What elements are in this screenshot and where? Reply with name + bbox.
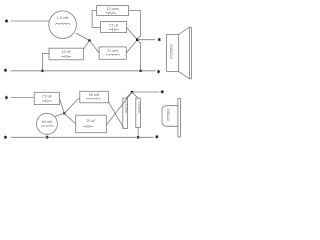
inductor L2 .27 mH bbox=[99, 47, 126, 59]
svg-text:1.0 mH: 1.0 mH bbox=[57, 16, 69, 20]
wire bbox=[83, 41, 89, 50]
wire bbox=[64, 98, 80, 114]
node J4 bbox=[131, 91, 134, 94]
wire bbox=[132, 92, 138, 98]
capacitor C1 7.5 uF bbox=[101, 22, 127, 33]
speaker woofer P17WJ bbox=[167, 27, 192, 79]
svg-text:7.5 uF: 7.5 uF bbox=[42, 94, 53, 98]
wire (ground rail, woofer) bbox=[11, 70, 156, 72]
wire bbox=[132, 91, 160, 93]
wire bbox=[11, 97, 34, 99]
speaker tweeter 27TDFC bbox=[162, 99, 181, 138]
terminal - (woofer) bbox=[157, 70, 160, 74]
input terminal + (tweeter section) bbox=[5, 96, 8, 100]
wire bbox=[60, 99, 65, 114]
svg-text:20 uF: 20 uF bbox=[86, 119, 96, 123]
svg-text:40 mH: 40 mH bbox=[42, 120, 53, 124]
node J1 bbox=[88, 39, 91, 42]
wire bbox=[106, 92, 132, 125]
wire (ground rail, tweeter) bbox=[11, 136, 154, 138]
resistor R1 12 ohm bbox=[97, 6, 129, 16]
svg-text:15 ohm: 15 ohm bbox=[124, 102, 128, 113]
capacitor C2 10 uF bbox=[49, 48, 83, 60]
input terminal - (woofer section) bbox=[4, 69, 7, 73]
input terminal - (tweeter section) bbox=[4, 136, 7, 140]
wire bbox=[137, 127, 139, 137]
wire bbox=[126, 92, 132, 98]
wire hop bbox=[138, 37, 141, 43]
svg-text:7.5 uF: 7.5 uF bbox=[108, 23, 119, 27]
wire bbox=[76, 33, 90, 40]
svg-text:12 ohm: 12 ohm bbox=[107, 7, 119, 11]
terminal + (tweeter) bbox=[161, 90, 164, 94]
capacitor C3 7.5 uF bbox=[34, 92, 59, 104]
inductor L3 .40 mH bbox=[36, 113, 57, 134]
wire bbox=[127, 27, 138, 39]
wire bbox=[92, 11, 101, 28]
wire bbox=[129, 11, 141, 37]
wire bbox=[140, 42, 142, 70]
wire bbox=[64, 113, 75, 124]
wire bbox=[42, 53, 49, 70]
node bbox=[46, 136, 49, 139]
wire bbox=[126, 40, 137, 53]
terminal + (woofer) bbox=[158, 38, 161, 42]
wire bbox=[11, 20, 49, 22]
node bbox=[41, 70, 44, 73]
node J3 bbox=[63, 112, 66, 115]
inductor L1 1.0 mH bbox=[49, 11, 77, 39]
svg-text:35 mH: 35 mH bbox=[89, 93, 100, 97]
node bbox=[137, 136, 140, 139]
svg-text:P17WJ00: P17WJ00 bbox=[170, 44, 174, 59]
svg-text:10 uF: 10 uF bbox=[62, 50, 72, 54]
node J2 bbox=[136, 38, 139, 41]
wire bbox=[137, 39, 155, 41]
capacitor C4 20 uF bbox=[76, 115, 107, 133]
inductor L4 .35 mH bbox=[80, 91, 109, 103]
input terminal + (woofer section) bbox=[5, 19, 8, 23]
wire bbox=[108, 102, 123, 128]
wire bbox=[54, 113, 64, 117]
svg-text:27TDFC: 27TDFC bbox=[167, 108, 171, 121]
wire bbox=[90, 41, 100, 53]
svg-text:27 mH: 27 mH bbox=[107, 49, 118, 53]
svg-text:15 ohm: 15 ohm bbox=[137, 102, 141, 113]
wire bbox=[46, 134, 48, 137]
terminal - (tweeter) bbox=[155, 135, 158, 139]
resistor R2 (vertical) bbox=[123, 98, 128, 128]
node bbox=[139, 70, 142, 73]
resistor R3 (vertical) bbox=[136, 98, 141, 127]
